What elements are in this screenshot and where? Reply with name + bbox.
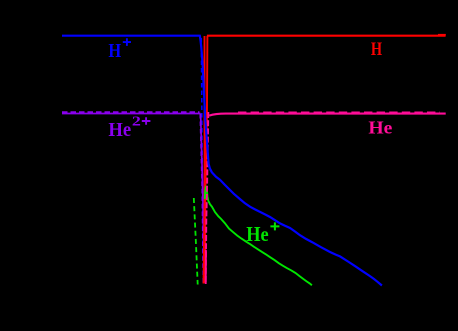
svg-text:He: He	[108, 120, 131, 141]
svg-text:He: He	[246, 222, 268, 246]
svg-text:H: H	[108, 40, 121, 62]
svg-text:H: H	[371, 39, 382, 60]
svg-text:2: 2	[132, 114, 141, 129]
svg-text:He: He	[368, 117, 392, 137]
